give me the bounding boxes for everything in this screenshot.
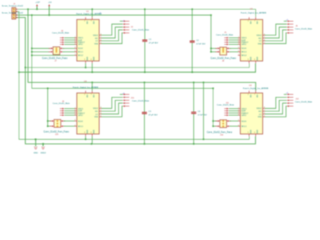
svg-text:4.7uF 2kV: 4.7uF 2kV [196, 43, 206, 45]
svg-text:MCL1: MCL1 [242, 52, 247, 54]
svg-text:Conn_01x05_Male: Conn_01x05_Male [295, 28, 313, 30]
svg-text:Conn_01x05_Male: Conn_01x05_Male [217, 105, 235, 107]
svg-text:PWRCT: PWRCT [242, 42, 250, 44]
svg-text:SCLK: SCLK [242, 121, 248, 123]
svg-text:GND2: GND2 [40, 152, 46, 154]
svg-text:+12P: +12P [35, 2, 40, 4]
svg-text:Conn_01x05_Male: Conn_01x05_Male [53, 103, 71, 105]
svg-text:+5: +5 [286, 93, 288, 95]
svg-text:VDD1: VDD1 [78, 38, 83, 40]
svg-text:MCL1: MCL1 [78, 52, 83, 54]
svg-text:VDD1: VDD1 [242, 108, 247, 110]
svg-text:PWRCT: PWRCT [242, 113, 250, 115]
svg-text:Conn_01x05_Male: Conn_01x05_Male [132, 30, 150, 32]
svg-text:MCL1: MCL1 [242, 126, 247, 128]
svg-text:+5: +5 [286, 19, 288, 21]
svg-text:GPIO: GPIO [242, 115, 247, 117]
svg-text:SCLK: SCLK [78, 48, 84, 50]
svg-text:Conn_01x02_Fem_Fano: Conn_01x02_Fem_Fano [211, 58, 237, 60]
svg-text:VDD2: VDD2 [93, 108, 98, 110]
svg-text:Conn_01x02_Fem_Fano: Conn_01x02_Fem_Fano [44, 132, 70, 134]
svg-text:4.7uF 2kV: 4.7uF 2kV [198, 115, 208, 117]
svg-text:SCLK: SCLK [242, 48, 248, 50]
svg-text:GPIO: GPIO [78, 44, 83, 46]
svg-text:+5: +5 [122, 21, 124, 23]
svg-text:SCLK: SCLK [78, 121, 84, 123]
svg-text:MCL2: MCL2 [78, 55, 83, 57]
svg-text:VDD1: VDD1 [78, 108, 83, 110]
svg-text:Conn_01x05_Male: Conn_01x05_Male [295, 101, 313, 103]
svg-text:VDD2: VDD2 [256, 108, 261, 110]
svg-text:+5: +5 [122, 93, 124, 95]
svg-text:Conn_01x02_Fem_Fano: Conn_01x02_Fem_Fano [207, 132, 233, 134]
svg-text:GPIO: GPIO [242, 44, 247, 46]
svg-text:Conn_01x05_Male: Conn_01x05_Male [52, 33, 70, 35]
svg-text:VDD2: VDD2 [93, 35, 98, 37]
svg-text:PWRCT: PWRCT [78, 113, 86, 115]
svg-text:47 pF 3kV: 47 pF 3kV [149, 42, 159, 44]
svg-text:Conn_01x05_Male: Conn_01x05_Male [132, 100, 150, 102]
svg-text:MCL2: MCL2 [242, 55, 247, 57]
svg-text:Conn_01x05_Male: Conn_01x05_Male [216, 34, 234, 36]
svg-text:MCL1: MCL1 [78, 126, 83, 128]
svg-text:PWRCT: PWRCT [78, 42, 86, 44]
svg-text:VDD1: VDD1 [242, 38, 247, 40]
svg-text:47 pF 3kV: 47 pF 3kV [148, 115, 158, 117]
svg-text:GND: GND [33, 152, 38, 154]
svg-text:Conn_01x02_Fem_Fano: Conn_01x02_Fem_Fano [42, 58, 68, 60]
svg-text:GPIO: GPIO [78, 115, 83, 117]
svg-text:VDD2: VDD2 [256, 35, 261, 37]
